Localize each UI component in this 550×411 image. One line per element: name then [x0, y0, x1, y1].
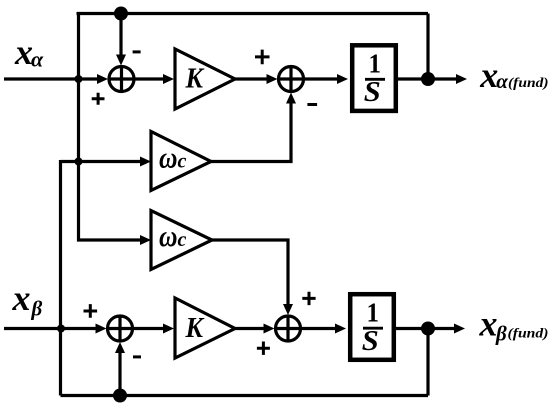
plus sign at S2 left input	[255, 50, 270, 65]
label x_alpha(fund)	[479, 55, 548, 95]
summing junction S4	[274, 315, 302, 343]
summing junction S3	[106, 315, 134, 343]
svg-text:ω: ω	[159, 218, 178, 253]
wire: lower omega_c output dropping into S4	[212, 240, 288, 305]
svg-text:α: α	[496, 69, 508, 93]
integrator block 1/S (beta row)	[350, 294, 394, 360]
svg-text:ω: ω	[159, 139, 178, 174]
plus sign at S4 lower-left input	[257, 342, 270, 355]
wire: junction feed to upper omega_c input	[61, 160, 143, 163]
svg-text:(fund): (fund)	[508, 76, 549, 91]
node dot: x_alpha(fund) output	[421, 72, 435, 86]
wire: S2 to integrator box 1	[305, 77, 340, 80]
minus sign at S2 bottom input	[307, 103, 317, 106]
wire: feedback drop from x_beta(fund) node to bottom rail	[426, 329, 429, 396]
wire: top feedback rail	[77, 12, 429, 15]
svg-text:S: S	[362, 325, 379, 357]
svg-text:β: β	[31, 297, 43, 321]
junction dot on top rail	[114, 7, 128, 21]
node dot: x_beta tap on line B	[57, 325, 65, 333]
svg-text:S: S	[364, 76, 381, 108]
plus sign at S3 left input	[84, 304, 98, 318]
wire: bottom feedback rail	[61, 394, 429, 397]
gain block K1	[175, 49, 235, 109]
wire: K1 to summer S2	[235, 77, 268, 80]
svg-text:β: β	[495, 322, 507, 346]
gain block omega_c lower	[151, 211, 212, 270]
svg-text:c: c	[178, 150, 187, 172]
wire: K2 to summer S4	[235, 327, 265, 330]
junction dot on bottom rail	[113, 389, 127, 403]
summing junction S1	[108, 65, 136, 93]
node dot: x_alpha tap on line A	[75, 75, 83, 83]
svg-text:1: 1	[369, 49, 382, 79]
svg-text:(fund): (fund)	[508, 327, 549, 342]
wire: x_alpha input line	[4, 77, 99, 80]
wire: x_beta input line	[4, 327, 97, 330]
svg-text:x: x	[12, 278, 31, 318]
wire: line A from top rail down to lower omega_c input	[79, 12, 143, 240]
svg-text:K: K	[185, 313, 206, 344]
summing junction S2	[277, 65, 305, 93]
integrator block 1/S (alpha row)	[352, 45, 396, 111]
label omega_c upper	[159, 139, 187, 174]
label x_beta(fund)	[479, 304, 549, 346]
plus sign at S4 top input	[302, 292, 315, 305]
wire: line B carrying x_beta up to junction	[59, 160, 62, 396]
node dot: x_beta(fund) output	[421, 322, 435, 336]
label omega_c lower	[159, 218, 187, 253]
label x_beta	[12, 278, 43, 321]
wire: feedback drop from rail to x_alpha(fund) node	[426, 14, 429, 80]
svg-text:1: 1	[367, 297, 380, 327]
wire: upper omega_c output rising into S2	[210, 102, 291, 162]
wire: integrator 2 to x_beta(fund) output	[396, 327, 454, 330]
wire: S3 to gain K2	[134, 327, 166, 330]
plus sign at S1 left input	[92, 93, 105, 105]
svg-text:α: α	[31, 47, 44, 72]
minus sign at S3 bottom input	[133, 355, 141, 358]
node dot: junction of line A and upper omega_c feed	[75, 158, 83, 166]
wire: integrator 1 to x_alpha(fund) output	[398, 77, 456, 80]
wire: branch from top rail down into summer S1	[119, 14, 122, 57]
wire: S1 to gain K1	[134, 77, 165, 80]
wire: branch from bottom rail up into S3	[118, 352, 121, 396]
gain block omega_c upper	[151, 132, 211, 191]
minus sign at S1 top input	[133, 50, 141, 53]
svg-text:K: K	[185, 64, 206, 95]
gain block K2	[175, 298, 235, 358]
wire: S4 to integrator box 2	[302, 327, 338, 330]
svg-text:x: x	[479, 304, 498, 344]
svg-text:c: c	[178, 229, 187, 251]
